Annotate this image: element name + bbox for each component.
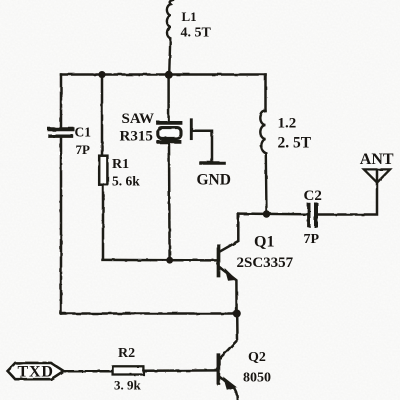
svg-text:Q1: Q1 xyxy=(254,234,274,251)
svg-text:R315: R315 xyxy=(120,128,153,144)
Q2 emitter xyxy=(220,377,237,400)
svg-text:GND: GND xyxy=(197,172,231,189)
svg-text:ANT: ANT xyxy=(360,151,394,168)
node: top rail / L1-SAW junction xyxy=(165,71,173,79)
wire R2 to Q2 base xyxy=(143,369,216,372)
Q2 collector xyxy=(220,314,237,358)
svg-text:2SC3357: 2SC3357 xyxy=(237,255,294,271)
Q2 base bar xyxy=(217,355,221,383)
antenna xyxy=(364,169,390,182)
wire gnd branch xyxy=(192,131,212,161)
SAW resonator R315 xyxy=(158,123,181,142)
resistor R1 xyxy=(99,156,107,185)
wire R1 branch upper xyxy=(101,75,104,156)
wire TXD to R2 xyxy=(64,370,113,373)
svg-text:Q2: Q2 xyxy=(248,350,266,365)
node: emitter / bottom rail junction xyxy=(233,310,241,318)
Q1 emitter xyxy=(220,268,236,314)
svg-text:2. 5T: 2. 5T xyxy=(278,135,312,152)
svg-text:5. 6k: 5. 6k xyxy=(112,174,140,189)
node: SAW / base rail junction xyxy=(166,257,173,264)
Q1 emitter arrow xyxy=(226,271,235,280)
transistor Q2 xyxy=(218,314,237,400)
svg-text:8050: 8050 xyxy=(243,371,271,386)
node: top rail / R1 junction xyxy=(98,71,105,78)
wire C1 branch upper xyxy=(60,75,63,128)
Q2 emitter arrow xyxy=(225,379,235,388)
capacitor C1 xyxy=(50,127,73,131)
wire C1 branch lower xyxy=(60,138,63,314)
wire SAW branch upper xyxy=(167,75,170,122)
svg-text:L1: L1 xyxy=(182,9,197,24)
Q1 collector xyxy=(220,214,238,252)
resistor R2 xyxy=(113,366,144,374)
svg-text:C1: C1 xyxy=(75,125,92,140)
svg-text:R1: R1 xyxy=(112,157,129,172)
inductor L2 xyxy=(260,111,266,214)
wire top rail xyxy=(61,73,266,76)
svg-text:4. 5T: 4. 5T xyxy=(181,26,212,41)
Q1 base bar xyxy=(217,246,221,276)
wire bottom rail xyxy=(61,312,237,315)
wire base rail Q1 xyxy=(103,259,217,262)
svg-text:7P: 7P xyxy=(304,232,320,247)
SAW side electrode to ground xyxy=(190,120,193,139)
svg-text:TXD: TXD xyxy=(18,364,54,381)
svg-text:R2: R2 xyxy=(118,346,135,361)
wire L2 branch down xyxy=(264,75,267,112)
wire SAW branch lower xyxy=(168,144,171,260)
svg-text:7P: 7P xyxy=(76,142,91,157)
wire R1 branch lower xyxy=(102,185,105,260)
ground xyxy=(201,161,224,165)
inductor L1 xyxy=(167,0,173,75)
wire C2 to antenna xyxy=(318,170,377,215)
svg-text:1.2: 1.2 xyxy=(278,116,297,132)
svg-text:3. 9k: 3. 9k xyxy=(114,378,142,393)
TXD input flag xyxy=(8,363,64,379)
svg-text:C2: C2 xyxy=(304,188,322,204)
node: L2 / collector rail junction xyxy=(263,210,270,217)
transistor Q1 xyxy=(219,214,239,314)
capacitor C2 xyxy=(307,205,310,226)
wire collector rail to C2 xyxy=(238,212,306,215)
svg-text:SAW: SAW xyxy=(122,111,155,127)
